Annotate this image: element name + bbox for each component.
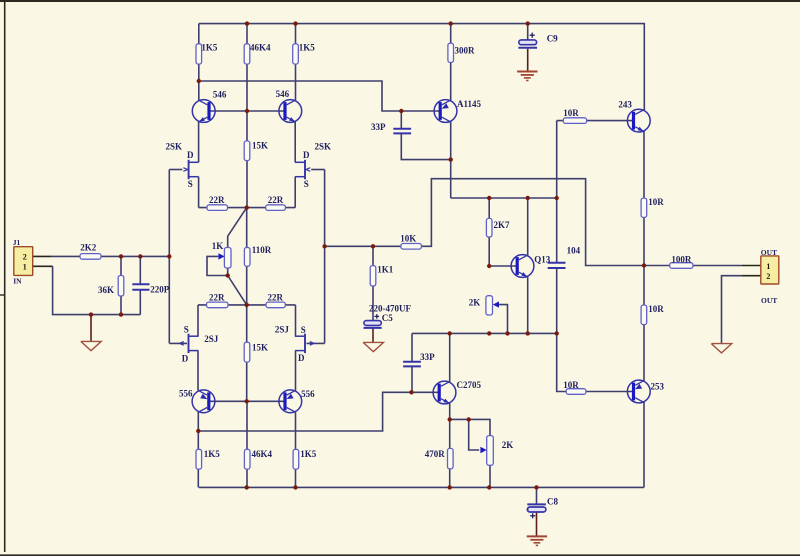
svg-text:104: 104 bbox=[567, 245, 581, 255]
svg-text:1K5: 1K5 bbox=[201, 42, 218, 52]
svg-text:36K: 36K bbox=[98, 285, 114, 295]
svg-text:10R: 10R bbox=[563, 380, 579, 390]
svg-text:2K2: 2K2 bbox=[80, 243, 97, 253]
svg-text:C8: C8 bbox=[547, 497, 558, 507]
svg-text:33P: 33P bbox=[420, 352, 435, 362]
svg-text:D: D bbox=[298, 353, 305, 363]
svg-text:2SJ: 2SJ bbox=[204, 334, 219, 344]
svg-text:D: D bbox=[303, 150, 310, 160]
svg-text:556: 556 bbox=[301, 389, 315, 399]
svg-text:470R: 470R bbox=[425, 449, 446, 459]
svg-text:J1: J1 bbox=[13, 238, 21, 247]
svg-text:S: S bbox=[304, 179, 309, 189]
svg-text:S: S bbox=[188, 179, 193, 189]
svg-text:46K4: 46K4 bbox=[250, 42, 271, 52]
svg-text:2K: 2K bbox=[469, 298, 481, 308]
svg-text:2SK: 2SK bbox=[315, 142, 332, 152]
svg-text:22R: 22R bbox=[209, 195, 225, 205]
svg-text:110R: 110R bbox=[252, 245, 272, 255]
svg-text:OUT: OUT bbox=[761, 248, 777, 257]
svg-text:D: D bbox=[182, 354, 189, 364]
svg-text:546: 546 bbox=[276, 89, 290, 99]
svg-text:10R: 10R bbox=[563, 108, 579, 118]
svg-text:IN: IN bbox=[13, 277, 22, 286]
svg-text:22R: 22R bbox=[209, 293, 225, 303]
svg-text:15K: 15K bbox=[252, 141, 268, 151]
svg-text:253: 253 bbox=[651, 382, 665, 392]
svg-text:2: 2 bbox=[23, 252, 27, 261]
svg-text:33P: 33P bbox=[371, 122, 386, 132]
svg-text:1K1: 1K1 bbox=[377, 264, 394, 274]
svg-text:S: S bbox=[301, 325, 306, 335]
svg-text:546: 546 bbox=[213, 89, 227, 99]
svg-text:15K: 15K bbox=[252, 343, 268, 353]
svg-text:2SJ: 2SJ bbox=[275, 325, 290, 335]
svg-text:D: D bbox=[187, 150, 194, 160]
svg-text:243: 243 bbox=[618, 100, 632, 110]
svg-text:10R: 10R bbox=[648, 304, 664, 314]
svg-text:1: 1 bbox=[23, 263, 27, 272]
svg-text:100R: 100R bbox=[671, 254, 692, 264]
svg-text:22R: 22R bbox=[268, 195, 284, 205]
svg-text:1K5: 1K5 bbox=[299, 42, 316, 52]
svg-text:2K7: 2K7 bbox=[494, 220, 511, 230]
svg-text:1K5: 1K5 bbox=[204, 449, 221, 459]
svg-text:556: 556 bbox=[179, 389, 193, 399]
svg-text:2K: 2K bbox=[502, 440, 514, 450]
svg-text:C5: C5 bbox=[382, 313, 393, 323]
svg-text:2: 2 bbox=[766, 272, 770, 281]
svg-text:S: S bbox=[184, 325, 189, 335]
svg-text:OUT: OUT bbox=[761, 296, 777, 305]
svg-text:22R: 22R bbox=[268, 293, 284, 303]
svg-text:46K4: 46K4 bbox=[252, 449, 273, 459]
svg-text:10R: 10R bbox=[648, 197, 664, 207]
svg-text:A1145: A1145 bbox=[457, 99, 482, 109]
svg-text:300R: 300R bbox=[455, 46, 476, 56]
svg-text:Q13: Q13 bbox=[534, 254, 551, 264]
svg-text:C2705: C2705 bbox=[457, 380, 482, 390]
svg-text:220-470UF: 220-470UF bbox=[369, 303, 411, 313]
svg-text:C9: C9 bbox=[547, 34, 558, 44]
svg-text:1K5: 1K5 bbox=[300, 449, 317, 459]
svg-text:1K: 1K bbox=[212, 241, 224, 251]
svg-text:10K: 10K bbox=[400, 234, 416, 244]
svg-text:220P: 220P bbox=[150, 284, 170, 294]
svg-text:2SK: 2SK bbox=[166, 142, 183, 152]
svg-text:1: 1 bbox=[766, 262, 770, 271]
